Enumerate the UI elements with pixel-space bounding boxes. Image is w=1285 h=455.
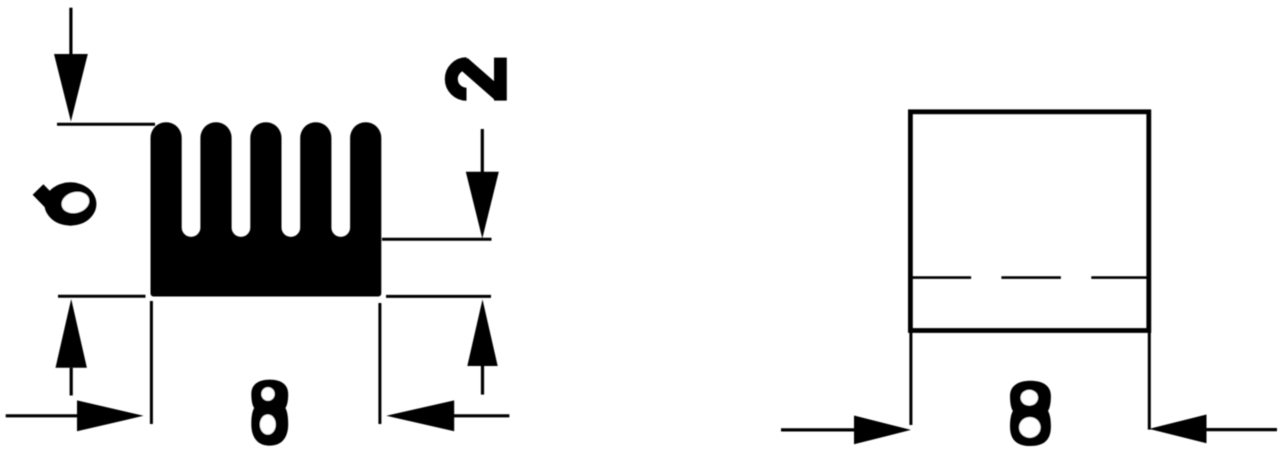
vertical extension line below side view right edge — [1148, 330, 1151, 430]
extension line at base-bottom level (right of profile) — [386, 295, 491, 298]
side view dimension 8 left arrow (right-pointing) — [781, 416, 911, 445]
dimension 6 bottom arrow (up) — [56, 299, 87, 396]
extension line at fin-top level (left) — [57, 123, 155, 126]
extension line at base-bottom level (left) — [58, 295, 146, 298]
dimension 8 right arrow (left-pointing) — [386, 400, 509, 431]
vertical extension line below side view left edge — [909, 330, 912, 425]
dimension 2 top arrow (down) — [466, 129, 499, 239]
dimension 2 bottom arrow (up) — [467, 299, 497, 394]
side view square outline — [910, 112, 1148, 331]
extension line at slot-bottom level (right of profile) — [382, 238, 492, 241]
dimension 6 top arrow (down) — [54, 8, 88, 122]
dimension label 2 (rotated, DIN style) — [451, 58, 506, 101]
dimension label 8 (left drawing, DIN style) — [251, 380, 288, 446]
side view dimension 8 right arrow (left-pointing) — [1149, 415, 1277, 444]
dimension label 8 (side view, DIN style) — [1010, 381, 1051, 446]
heatsink cross-section profile — [151, 122, 382, 296]
vertical extension line below profile left edge — [150, 301, 153, 424]
dimension 8 left arrow (right-pointing) — [6, 400, 144, 431]
vertical extension line below profile right edge — [378, 303, 381, 424]
hidden (dashed) line inside side view — [910, 276, 1148, 279]
dimension label 6 (rotated, DIN style) — [38, 182, 96, 225]
